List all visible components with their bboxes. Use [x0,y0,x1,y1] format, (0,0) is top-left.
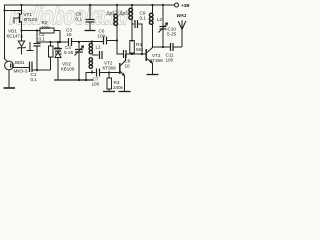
wire VT3 collector output [153,46,171,48]
capacitor C11 [170,43,172,51]
varicap diode VD2 [57,42,59,49]
junction rail Dr1 [116,4,118,6]
junction R4 C8 wire [131,53,133,55]
resistor R2 [40,28,54,33]
svg-text:КП103: КП103 [24,17,38,22]
junction C4 ground [78,79,80,81]
junction rail C5 [89,4,91,6]
capacitor at L1 tap [92,54,99,56]
capacitor C6 [103,37,105,45]
labels [7,3,191,90]
svg-text:0,1: 0,1 [31,77,38,82]
junction rail C10 [162,4,164,6]
junction node B C4 [78,41,80,43]
svg-text:16: 16 [67,32,73,37]
capacitor C7 [92,72,96,74]
transistor VT2 with emitter ground [119,63,121,74]
wire left supply rail [4,5,6,59]
junction C2 mic wire [36,69,38,71]
ground bar middle [54,79,93,81]
capacitor C8 [123,50,125,58]
svg-text:100: 100 [166,58,174,63]
wire node B drop to C8 [117,41,124,55]
svg-text:Др2: Др2 [120,11,129,16]
svg-text:КС147А: КС147А [7,34,25,39]
resistor R3 with ground [108,73,110,79]
junction rail Dr2 [131,4,133,6]
wire mic signal to R1 [32,69,51,71]
svg-text:L2: L2 [157,17,163,22]
svg-text:КВ109: КВ109 [61,67,75,72]
junction node B L1 [91,40,93,42]
svg-text:10к: 10к [55,51,63,56]
svg-text:0,1: 0,1 [140,15,147,20]
microphone BM1 [5,61,14,70]
capacitor C3 [68,38,70,46]
capacitor C2 [36,31,38,44]
junction node A left [20,29,22,31]
wire VT1 gate feed [4,10,21,12]
transistor VT3 with emitter ground [145,49,147,61]
junction rail-gate wire [3,9,5,11]
svg-text:10: 10 [125,63,131,68]
capacitor C1 [29,62,31,73]
ground microphone [8,70,10,88]
junction node A C2 [36,29,38,31]
wire VT1 gate lead [14,18,20,24]
svg-text:КТ368: КТ368 [103,65,117,70]
ground stub near VD1 [29,42,31,50]
capacitor C5 and its ground [89,5,91,20]
svg-text:L1: L1 [96,45,102,50]
wire VT1 drain to rail [21,5,23,14]
junction C10 output wire [162,46,164,48]
trimmer capacitor C4 [78,42,80,50]
svg-text:5-25: 5-25 [167,32,177,37]
junction rail VT1 [20,4,22,6]
wire +3V top rail [4,4,174,6]
wire node B horizontal [37,41,69,43]
trimmer capacitor C10 [162,5,164,27]
svg-text:+3В: +3В [181,3,190,8]
inductor L2 [152,5,154,13]
resistor R1 [50,57,52,70]
junction rail L2 [151,4,153,6]
svg-text:0,1: 0,1 [76,17,83,22]
junction base VT2 R3 [108,71,110,73]
svg-text:ВМ1: ВМ1 [15,60,25,65]
wire VT1 source to node A [21,22,23,31]
wire node A horizontal [22,30,41,32]
svg-text:WA1: WA1 [177,13,187,18]
junction L1 bottom C7 [91,71,93,73]
junction node B R2 [59,41,61,43]
transistor VT1 [19,13,21,23]
svg-text:5-25: 5-25 [64,50,74,55]
svg-text:100: 100 [98,34,106,39]
zener diode VD1 [21,31,23,42]
watermark [9,1,130,30]
choke Dr1 [116,5,118,14]
svg-text:МКЭ-3: МКЭ-3 [14,69,28,74]
inductor L1 [91,42,93,44]
choke Dr2 [131,5,133,8]
svg-text:100к: 100к [41,25,50,30]
junction node B Dr1 [116,39,118,41]
svg-text:100: 100 [92,82,100,87]
resistor R4 [130,41,135,54]
junction node B R1 [49,41,51,43]
terminal +3V [175,3,179,7]
svg-text:КТ368: КТ368 [150,58,164,63]
junction node B VD2 [57,41,59,43]
svg-text:Др1: Др1 [107,11,116,16]
junction C9 VT3 base wire [141,53,143,55]
junction L1 ground [85,79,87,81]
wire L1 bottom to ground [91,70,93,73]
svg-text:56к: 56к [136,47,144,52]
svg-text:240к: 240к [113,85,124,90]
antenna WA1 [181,30,183,48]
capacitor C9 [132,23,134,25]
svg-text:0,1: 0,1 [39,37,46,42]
